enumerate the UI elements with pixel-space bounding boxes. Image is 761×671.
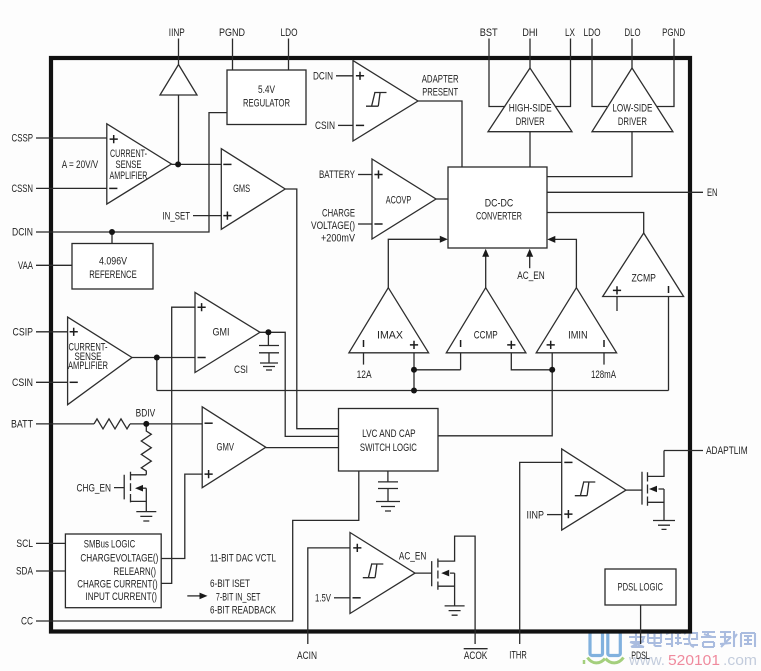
svg-text:ZCMP: ZCMP xyxy=(631,273,656,285)
wire low-side driver output to DC-DC converter xyxy=(547,132,632,177)
arrowhead 7-BIT IN_SET xyxy=(200,593,208,600)
comparator IMAX xyxy=(349,288,429,353)
op-amp current-sense amplifier 1 xyxy=(107,124,172,204)
wire IN_SET to GMS non-inverting input xyxy=(193,215,221,217)
wire CSIP input xyxy=(36,331,68,333)
comparator IMIN xyxy=(536,288,616,353)
svg-text:CSI: CSI xyxy=(234,364,248,376)
svg-text:INPUT CURRENT(): INPUT CURRENT() xyxy=(86,591,158,603)
svg-text:DC-DC: DC-DC xyxy=(485,198,514,210)
buffer IINP input amplifier xyxy=(160,65,197,96)
svg-text:CSIN: CSIN xyxy=(12,377,33,389)
wire ZCMP plus stub xyxy=(616,297,618,312)
node BDIV junction dot xyxy=(143,421,149,427)
wire high-side driver output to DC-DC converter xyxy=(529,132,531,167)
wire VCTL rail xyxy=(157,390,669,392)
svg-text:RELEARN(): RELEARN() xyxy=(114,566,157,578)
op-amp ACOVP xyxy=(372,159,436,239)
comparator AC_EN (Schmitt) xyxy=(350,533,415,614)
wire BST pin to high-side driver xyxy=(489,39,505,107)
svg-text:REGULATOR: REGULATOR xyxy=(243,98,290,110)
svg-text:CONVERTER: CONVERTER xyxy=(476,211,522,223)
svg-text:CHARGEVOLTAGE(): CHARGEVOLTAGE() xyxy=(80,553,158,565)
svg-text:DHI: DHI xyxy=(522,27,538,39)
svg-text:AMPLIFIER: AMPLIFIER xyxy=(110,170,148,182)
svg-text:BATTERY: BATTERY xyxy=(319,169,355,181)
comparator CCMP xyxy=(446,288,526,353)
svg-text:ADAPTER: ADAPTER xyxy=(422,74,459,86)
wire IMIN output to DC-DC converter xyxy=(554,239,576,287)
svg-text:SMBus LOGIC: SMBus LOGIC xyxy=(84,539,136,551)
svg-text:PRESENT: PRESENT xyxy=(422,87,458,99)
svg-text:6-BIT ISET: 6-BIT ISET xyxy=(210,578,250,590)
wire PGND pin to regulator xyxy=(232,39,234,71)
svg-text:REFERENCE: REFERENCE xyxy=(89,269,137,281)
wire LDO pin to low-side driver xyxy=(592,39,607,107)
svg-text:128mA: 128mA xyxy=(591,369,616,381)
op-amp GMV xyxy=(202,407,266,488)
svg-text:CCMP: CCMP xyxy=(474,330,498,342)
block 4.096V reference xyxy=(72,244,153,290)
node A junction dot xyxy=(175,161,181,167)
wire IMAX right input down to rail xyxy=(413,353,415,391)
capacitor CSI xyxy=(259,332,279,363)
svg-text:1.5V: 1.5V xyxy=(315,593,331,605)
wire GMI output to LVC logic xyxy=(260,332,339,436)
wire CSIN input xyxy=(36,381,68,383)
wire PGND pin to low-side driver xyxy=(657,39,674,107)
svg-text:CHARGE: CHARGE xyxy=(322,208,355,220)
wire ACIN pin to AC_EN comparator xyxy=(308,548,350,644)
svg-text:LX: LX xyxy=(565,27,575,39)
svg-text:A = 20V/V: A = 20V/V xyxy=(62,159,99,171)
wire IINP label to comparator xyxy=(547,514,562,516)
wire SCL input xyxy=(36,542,65,544)
resistor battery divider horizontal xyxy=(94,419,130,429)
wire ITHR pin to IINP comparator inverting input xyxy=(520,462,562,644)
block 5.4V regulator xyxy=(227,70,306,125)
svg-text:IINP: IINP xyxy=(169,27,185,39)
block PDSL logic xyxy=(605,569,676,605)
transistor CHG_EN MOSFET xyxy=(114,472,146,512)
wire BATT input to resistor xyxy=(36,423,94,425)
svg-text:PDSL: PDSL xyxy=(631,650,650,662)
arrowhead IMIN to DC-DC xyxy=(547,236,555,243)
wire IMIN left input down to LVC output xyxy=(438,353,552,436)
wire 7-BIT IN_SET arrow xyxy=(187,595,201,597)
svg-text:CSSP: CSSP xyxy=(12,133,34,145)
comparator IINP limit (Schmitt) xyxy=(562,449,626,530)
svg-text:CC: CC xyxy=(21,616,33,628)
wire CSIN label to adapter comparator xyxy=(338,124,353,126)
arrowhead AC_EN into DC-DC xyxy=(526,249,533,257)
svg-text:DLO: DLO xyxy=(625,27,641,39)
wire CSSN input xyxy=(36,187,107,189)
svg-text:CHG_EN: CHG_EN xyxy=(77,482,112,494)
wire node IMAX-CCMP link xyxy=(414,353,461,370)
node CSI junction dot xyxy=(265,329,271,335)
ground under ADAPTLIM MOSFET xyxy=(653,521,675,530)
svg-text:PDSL LOGIC: PDSL LOGIC xyxy=(618,582,664,594)
svg-text:VOLTAGE(): VOLTAGE() xyxy=(311,220,355,232)
svg-text:11-BIT DAC VCTL: 11-BIT DAC VCTL xyxy=(210,552,276,564)
svg-text:12A: 12A xyxy=(357,369,373,381)
svg-text:SDA: SDA xyxy=(16,566,33,578)
wire DCIN label to adapter comparator xyxy=(336,75,353,77)
svg-text:PGND: PGND xyxy=(662,27,685,39)
wire ACOVP output to DC-DC converter xyxy=(436,198,448,200)
comparator adapter present (Schmitt) xyxy=(353,61,418,141)
wire 1.5V label to AC_EN comparator xyxy=(334,597,350,599)
wire EN output xyxy=(547,191,703,193)
svg-text:ADAPTLIM: ADAPTLIM xyxy=(706,445,748,457)
wire CSSP input xyxy=(36,137,107,139)
svg-text:GMV: GMV xyxy=(217,442,235,454)
op-amp GMI xyxy=(195,292,260,372)
wire VAA to reference xyxy=(36,264,72,266)
buffer high-side driver xyxy=(488,68,572,132)
svg-text:PGND: PGND xyxy=(219,27,245,39)
svg-text:SCL: SCL xyxy=(16,538,33,550)
wire DCIN node to reference xyxy=(111,232,113,244)
node IMAX junction dot upper xyxy=(411,367,417,373)
svg-text:GMI: GMI xyxy=(213,327,230,339)
svg-text:LVC AND CAP: LVC AND CAP xyxy=(362,428,416,440)
wire CC input to LVC logic xyxy=(36,471,359,621)
block LVC and cap switch logic xyxy=(339,409,439,472)
wire AC_EN comparator output to gate xyxy=(415,572,432,574)
wire buffer output to node A xyxy=(178,95,180,164)
node IMIN junction dot xyxy=(549,367,555,373)
svg-text:4.096V: 4.096V xyxy=(99,256,128,268)
arrowhead CCMP to DC-DC xyxy=(482,249,489,257)
svg-text:LDO: LDO xyxy=(584,27,601,39)
svg-text:EN: EN xyxy=(707,187,718,199)
node rail junction dot xyxy=(411,388,417,394)
block DC-DC converter xyxy=(448,167,547,248)
svg-text:ITHR: ITHR xyxy=(509,650,527,662)
svg-text:DCIN: DCIN xyxy=(12,227,33,239)
svg-text:ACIN: ACIN xyxy=(297,650,317,662)
wire GMI non-inverting input to SMBus charge current xyxy=(161,307,195,583)
wire DC-DC converter to ZCMP xyxy=(547,213,644,234)
wire ACOK overline xyxy=(464,648,488,650)
transistor AC_EN MOSFET xyxy=(432,536,475,644)
op-amp current-sense amplifier 2 xyxy=(68,317,132,405)
comparator ZCMP xyxy=(603,233,684,297)
op-amp GMS xyxy=(221,149,285,230)
svg-text:CSIP: CSIP xyxy=(13,327,34,339)
wire IMIN right input stub 128mA xyxy=(603,353,605,365)
svg-text:ACOVP: ACOVP xyxy=(386,195,412,207)
svg-text:BATT: BATT xyxy=(11,419,33,431)
watermark logo book icon xyxy=(584,632,624,664)
svg-text:7-BIT IN_SET: 7-BIT IN_SET xyxy=(216,591,261,603)
svg-text:BST: BST xyxy=(480,27,498,39)
wire AC_EN arrow into DC-DC converter xyxy=(529,256,531,268)
svg-text:CSIN: CSIN xyxy=(315,120,335,132)
IC outline border frame xyxy=(51,58,690,632)
arrowhead IMAX to DC-DC xyxy=(440,236,448,243)
node DCIN junction dot xyxy=(109,229,115,235)
svg-text:HIGH-SIDE: HIGH-SIDE xyxy=(509,103,552,115)
wire node B down to rail xyxy=(156,358,158,391)
wire CCMP right input to IMIN node xyxy=(511,353,552,370)
svg-text:LDO: LDO xyxy=(281,27,298,39)
transistor ADAPTLIM MOSFET xyxy=(642,451,703,521)
wire amp2 output to GMI inverting input xyxy=(132,357,195,359)
svg-text:SWITCH LOGIC: SWITCH LOGIC xyxy=(360,442,417,454)
wire SDA input xyxy=(36,570,65,572)
wire GMS output to LVC logic xyxy=(285,189,338,429)
ground under LVC capacitor xyxy=(376,502,400,512)
svg-text:DRIVER: DRIVER xyxy=(516,116,545,128)
svg-text:GMS: GMS xyxy=(233,183,250,195)
wire GMV non-inverting input to SMBus charge voltage xyxy=(161,474,202,558)
svg-text:BDIV: BDIV xyxy=(136,408,156,420)
svg-text:IN_SET: IN_SET xyxy=(163,210,191,222)
wire adapter present output to DC-DC converter xyxy=(418,101,462,167)
wire IMAX output to DC-DC converter xyxy=(388,239,441,287)
wire IINP comparator output to gate xyxy=(626,489,642,491)
wire GMV output to LVC logic xyxy=(266,447,339,449)
ground under CHG_EN MOSFET xyxy=(136,512,156,521)
wire PDSL logic to PDSL pin xyxy=(640,605,642,644)
wire ZCMP right input from rail xyxy=(668,297,670,391)
svg-text:CHARGE CURRENT(): CHARGE CURRENT() xyxy=(77,578,158,590)
wire DHI pin to high-side driver apex xyxy=(529,39,531,69)
wire BDIV node to GMV inverting input xyxy=(130,423,202,425)
svg-text:IMAX: IMAX xyxy=(377,330,404,342)
svg-text:6-BIT READBACK: 6-BIT READBACK xyxy=(210,604,276,616)
svg-text:AC_EN: AC_EN xyxy=(517,270,545,282)
svg-text:ACOK: ACOK xyxy=(464,650,488,662)
wire DLO pin to low-side driver apex xyxy=(631,39,633,69)
wire IINP pin to buffer xyxy=(178,39,180,65)
block SMBus logic xyxy=(65,534,161,608)
svg-text:VAA: VAA xyxy=(18,260,33,272)
svg-text:LOW-SIDE: LOW-SIDE xyxy=(612,103,652,115)
ground under CSI capacitor xyxy=(260,363,278,370)
svg-text:IINP: IINP xyxy=(527,509,545,521)
resistor BDIV vertical xyxy=(141,424,151,475)
wire charge voltage label to ACOVP xyxy=(358,223,372,225)
svg-text:+200mV: +200mV xyxy=(321,233,356,245)
wire IMAX left input stub 12A xyxy=(363,353,365,365)
svg-text:DRIVER: DRIVER xyxy=(618,116,647,128)
svg-text:.com: .com xyxy=(723,652,757,669)
wire amp1 output to GMS inverting input xyxy=(171,163,221,165)
svg-text:CSSN: CSSN xyxy=(12,183,34,195)
ground under AC_EN MOSFET xyxy=(445,606,465,615)
svg-text:AMPLIFIER: AMPLIFIER xyxy=(68,360,108,372)
node B amp2 output junction dot xyxy=(154,355,160,361)
wire CCMP output to DC-DC converter xyxy=(485,256,487,288)
watermark chinese text 家电维修资料网 xyxy=(629,630,755,647)
svg-text:IMIN: IMIN xyxy=(568,330,588,342)
svg-text:DCIN: DCIN xyxy=(313,71,333,83)
wire LX pin to high-side driver xyxy=(555,39,571,107)
wire BATTERY label to ACOVP xyxy=(358,174,372,176)
capacitor under LVC logic xyxy=(378,471,398,502)
svg-text:520101: 520101 xyxy=(668,652,720,669)
wire LDO pin to regulator xyxy=(288,39,290,71)
buffer low-side driver xyxy=(592,68,673,132)
svg-text:AC_EN: AC_EN xyxy=(399,550,427,562)
svg-text:5.4V: 5.4V xyxy=(258,84,275,96)
wire DCIN input to regulator xyxy=(36,113,227,232)
